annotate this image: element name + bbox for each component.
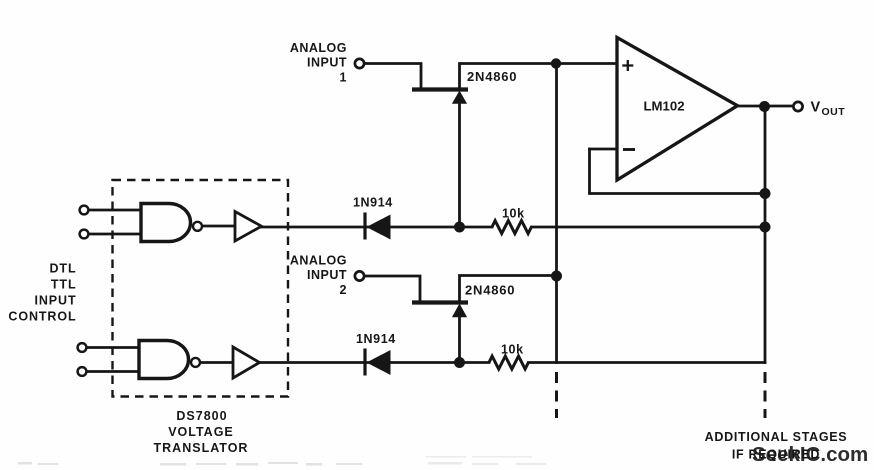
svg-text:2N4860: 2N4860 bbox=[465, 283, 515, 298]
wire NAND2 bubble to buffer 2 bbox=[201, 361, 233, 364]
svg-text:LM102: LM102 bbox=[644, 99, 685, 114]
junction node row 1 / right bus bbox=[760, 222, 771, 233]
buffer A1 triangle bbox=[235, 212, 262, 242]
label additional stages if required bbox=[705, 430, 848, 462]
wire op-amp inverting stub bbox=[590, 148, 617, 151]
wire NAND1 input A bbox=[90, 209, 141, 212]
wire op-amp output to Vout terminal bbox=[737, 105, 792, 108]
wire analog input 2 to JFET Q2 source bbox=[366, 276, 420, 301]
terminal analog input 1 bbox=[355, 59, 364, 68]
wire control row 2 (buffer 2 output to diode and node) bbox=[261, 361, 489, 364]
svg-text:1N914: 1N914 bbox=[356, 332, 396, 346]
label analog input 1 bbox=[290, 41, 347, 85]
dashed stub below right bus bbox=[764, 372, 767, 418]
wire NAND2 input A bbox=[88, 346, 139, 349]
terminal control 2A bbox=[78, 343, 87, 352]
wire right bus bbox=[764, 107, 767, 363]
terminal control 1A bbox=[80, 206, 89, 215]
transistor Q1 gate arrow bbox=[452, 91, 467, 104]
terminal control 2B bbox=[78, 367, 87, 376]
label DS7800 voltage translator bbox=[154, 409, 249, 455]
svg-text:INPUT: INPUT bbox=[307, 56, 347, 70]
junction node at Q1 drain / middle bus bbox=[551, 58, 561, 68]
svg-text:DS7800: DS7800 bbox=[176, 409, 227, 423]
wire NAND2 input B bbox=[88, 370, 139, 373]
svg-text:CONTROL: CONTROL bbox=[8, 310, 76, 324]
wire Q1 drain to op-amp + input bbox=[460, 64, 617, 89]
transistor Q2 2N4860 channel bar bbox=[412, 300, 468, 304]
wire feedback from output bus to inverting input bbox=[590, 149, 766, 194]
diode CR2 1N914 (row 2) bbox=[365, 349, 391, 376]
transistor Q2 gate arrow bbox=[452, 304, 467, 318]
svg-text:10k: 10k bbox=[502, 207, 525, 221]
svg-text:INPUT: INPUT bbox=[35, 294, 77, 308]
wire Q2 drain to middle bus bbox=[460, 276, 557, 302]
op-amp U1 LM102 body bbox=[617, 38, 738, 181]
junction node Q2 drain / middle bus bbox=[551, 271, 562, 282]
op-amp minus sign bbox=[623, 148, 635, 151]
svg-text:1: 1 bbox=[340, 71, 347, 85]
svg-text:INPUT: INPUT bbox=[307, 268, 347, 282]
dashed box DS7800 voltage translator bbox=[113, 180, 289, 397]
terminal analog input 2 bbox=[355, 271, 364, 280]
svg-text:2N4860: 2N4860 bbox=[467, 69, 517, 84]
svg-text:1N914: 1N914 bbox=[353, 196, 393, 210]
svg-text:TTL: TTL bbox=[51, 278, 77, 292]
junction node row 2 / Q2 gate bbox=[454, 357, 465, 368]
terminal control 1B bbox=[80, 230, 89, 239]
transistor Q1 2N4860 channel bar bbox=[412, 87, 468, 91]
junction node row 1 / Q1 gate bbox=[454, 222, 465, 233]
wire NAND1 bubble to buffer 1 bbox=[203, 225, 235, 228]
svg-text:V: V bbox=[811, 100, 821, 116]
resistor R1 10k (row 1) bbox=[492, 221, 531, 234]
svg-text:SeekIC.com: SeekIC.com bbox=[752, 443, 868, 466]
wire middle bus (Q1 drain node down to row 2 bottom) bbox=[555, 64, 558, 363]
svg-text:ANALOG: ANALOG bbox=[290, 41, 347, 55]
svg-text:2: 2 bbox=[340, 283, 347, 297]
NAND gate G1 bubble bbox=[193, 222, 202, 231]
svg-text:10k: 10k bbox=[501, 343, 524, 357]
dashed stub below middle bus bbox=[555, 372, 558, 418]
svg-text:ADDITIONAL STAGES: ADDITIONAL STAGES bbox=[705, 430, 848, 444]
NAND gate G2 body bbox=[139, 341, 189, 379]
NAND gate G2 bubble bbox=[191, 358, 200, 367]
wire control row 1 (buffer 1 output to diode and node) bbox=[261, 226, 492, 229]
svg-text:TRANSLATOR: TRANSLATOR bbox=[154, 441, 249, 455]
svg-text:OUT: OUT bbox=[822, 106, 846, 118]
svg-text:VOLTAGE: VOLTAGE bbox=[168, 425, 234, 439]
wire NAND1 input B bbox=[90, 233, 141, 236]
buffer A2 triangle bbox=[233, 347, 260, 378]
wire row 2 resistor to right bus corner bbox=[529, 361, 766, 364]
wire Q2 gate down to control row 2 bbox=[458, 316, 461, 363]
svg-text:DTL: DTL bbox=[50, 262, 77, 276]
faint cropped caption at bottom edge bbox=[18, 456, 546, 466]
NAND gate G1 body bbox=[141, 204, 191, 242]
terminal Vout bbox=[793, 102, 802, 111]
junction node feedback / right bus bbox=[760, 188, 771, 199]
wire analog input 1 to JFET Q1 source bbox=[366, 64, 421, 89]
wire Q1 gate down to control row 1 bbox=[458, 102, 461, 227]
resistor R2 10k (row 2) bbox=[489, 356, 528, 369]
label analog input 2 bbox=[290, 254, 347, 298]
svg-text:ANALOG: ANALOG bbox=[290, 254, 347, 268]
junction node at op-amp output bbox=[759, 101, 770, 112]
op-amp plus sign bbox=[622, 60, 633, 71]
label DTL TTL input control bbox=[8, 262, 76, 324]
wire row 1 resistor to right bus bbox=[532, 226, 766, 229]
diode CR1 1N914 (row 1) bbox=[365, 213, 391, 240]
